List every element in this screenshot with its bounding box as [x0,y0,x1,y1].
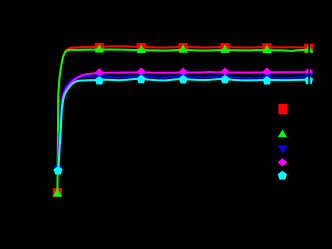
legend marker: blue down triangle [278,145,287,153]
cyan pentagon markers [54,75,314,175]
magenta diamond markers [53,67,313,174]
legend marker: magenta diamond [278,158,288,166]
red curve [57,46,308,192]
legend marker: cyan pentagon [278,171,287,180]
magenta curve [58,72,309,170]
legend marker: green up triangle [278,129,287,137]
red square markers [53,43,314,197]
green triangle markers [53,44,314,197]
legend marker: red square [278,104,287,114]
right axis spine (black, cuts through last markers) [308,0,310,249]
green curve [57,50,308,193]
cyan curve [58,79,308,171]
blue curve [58,76,309,170]
blue down-triangle markers [53,72,313,175]
